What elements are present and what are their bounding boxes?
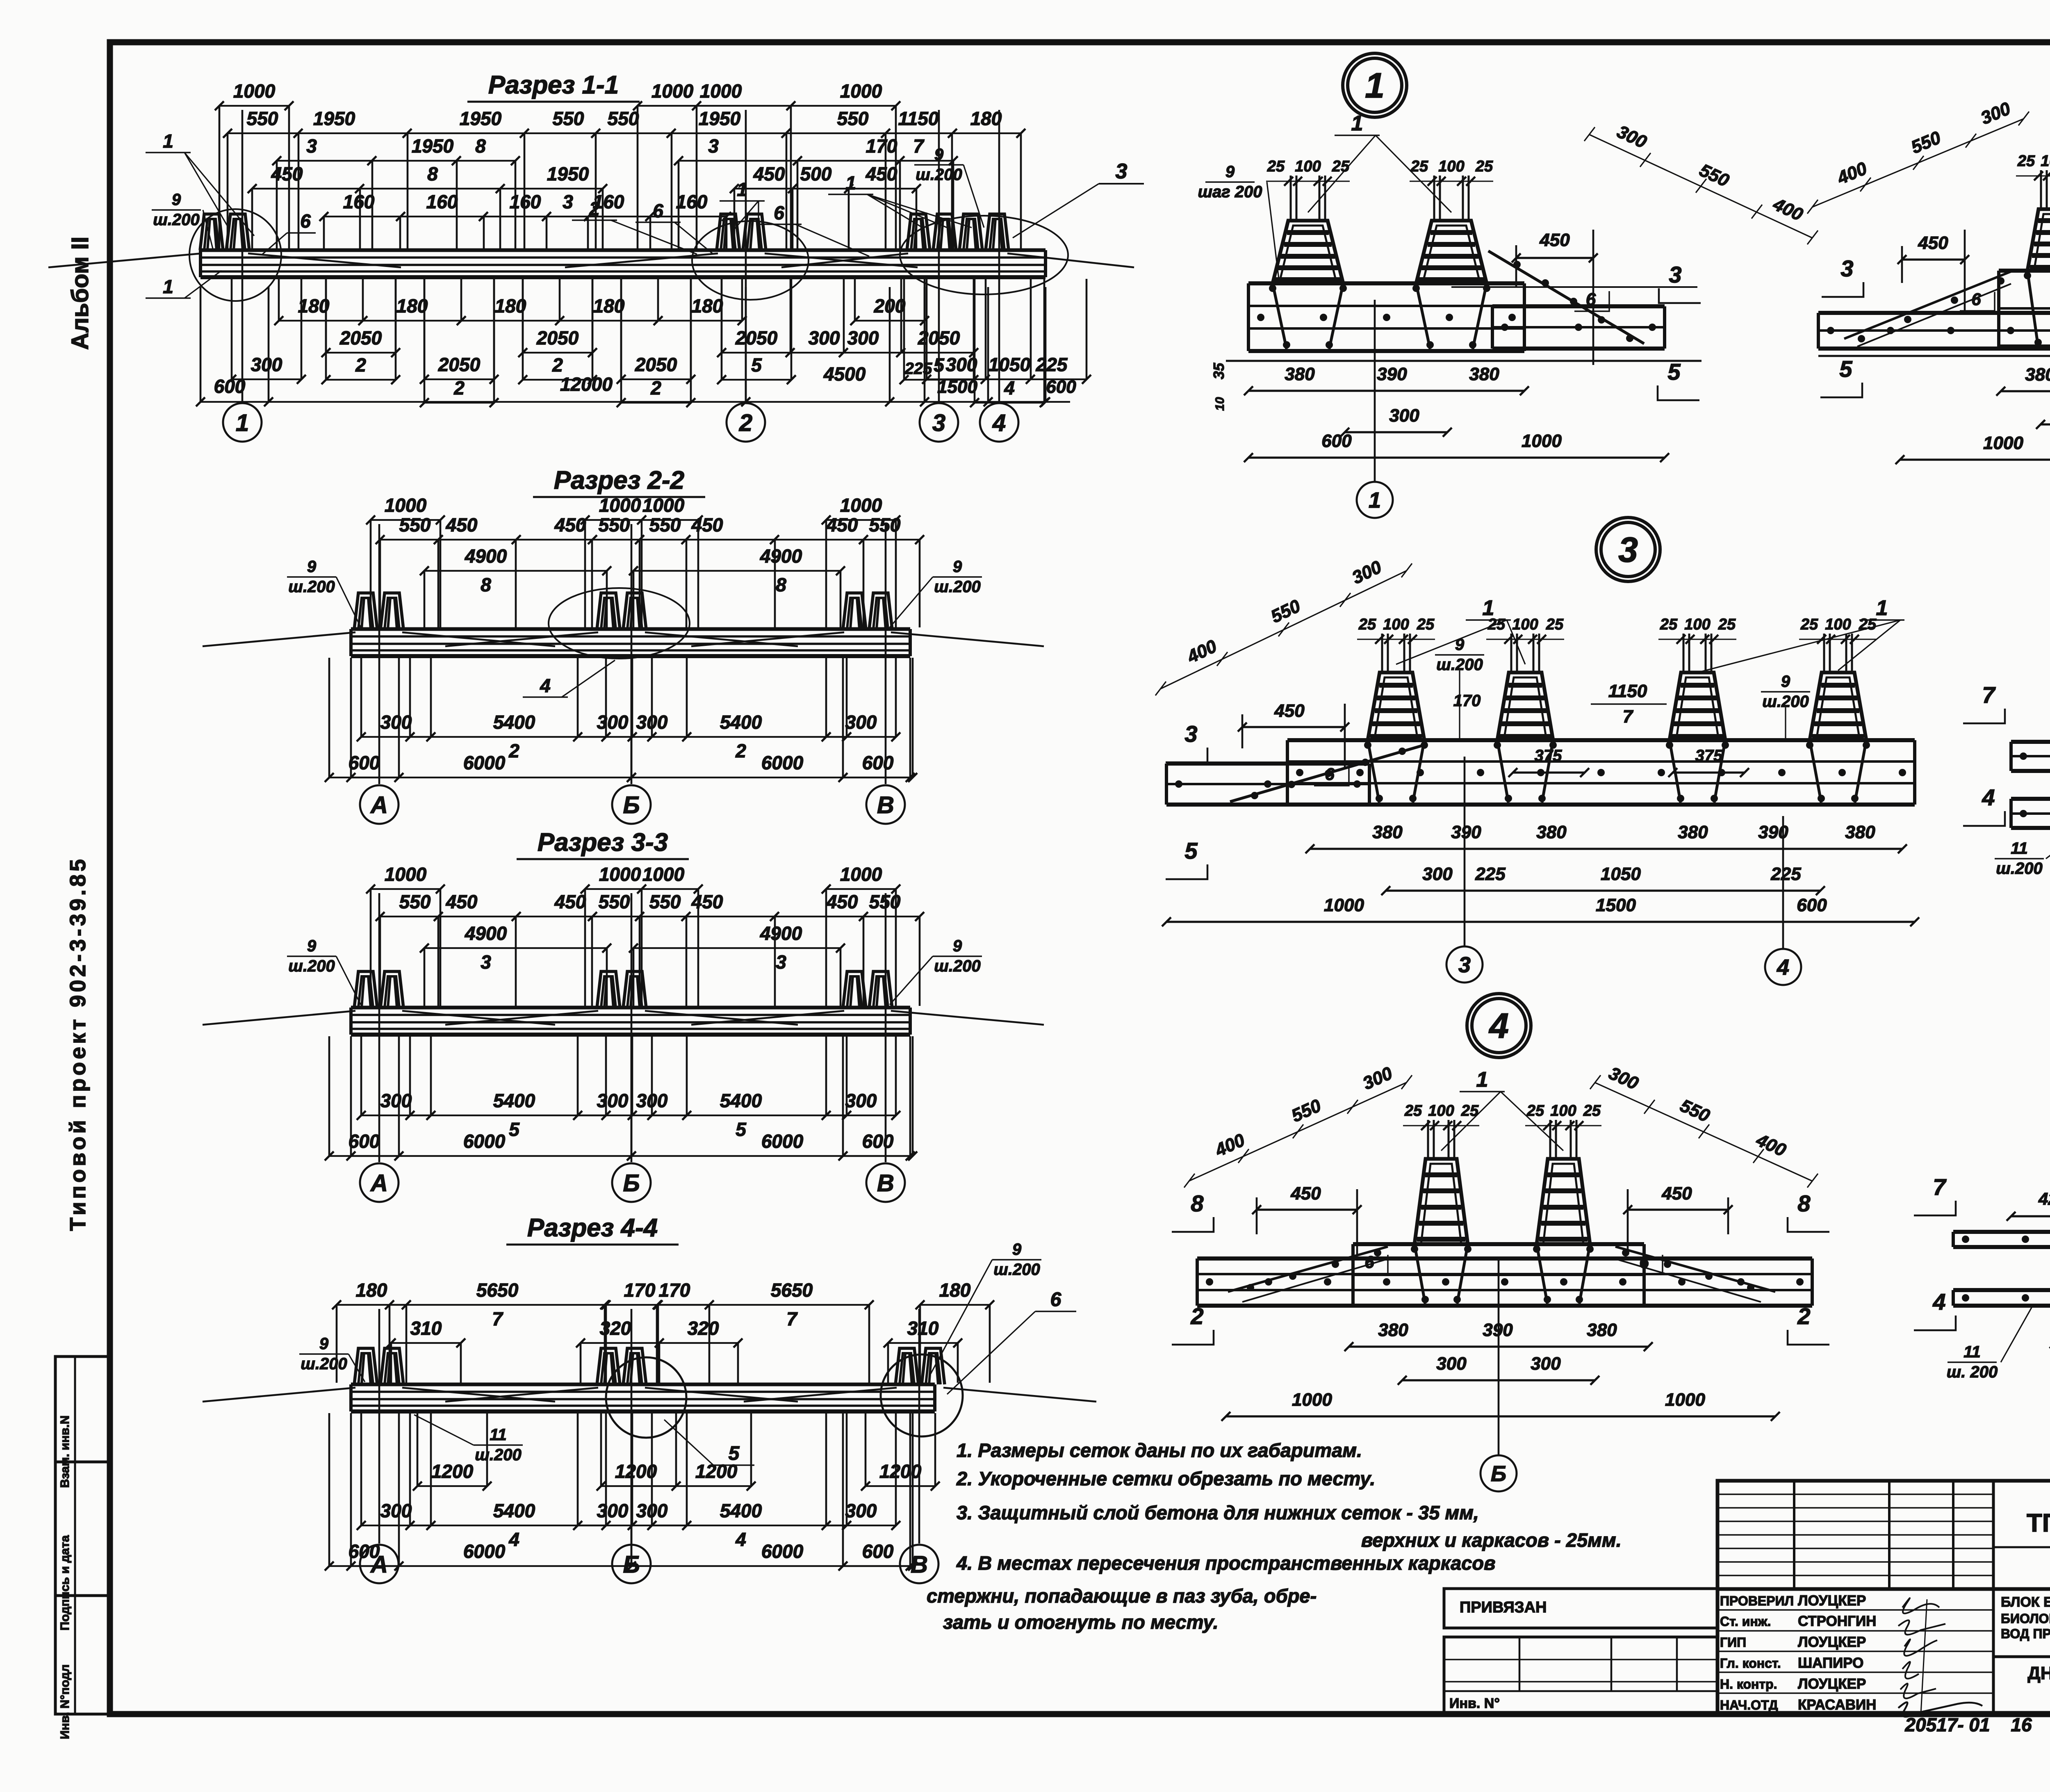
svg-text:380: 380 (1587, 1320, 1617, 1340)
axis circle 4 of node 3 (1765, 949, 1801, 985)
svg-text:170: 170 (1453, 692, 1481, 710)
svg-text:300: 300 (845, 711, 877, 733)
teeth of Разрез 3-3 (354, 971, 377, 1008)
teeth of node 3 (1368, 740, 1379, 803)
svg-text:2050: 2050 (635, 354, 677, 375)
svg-text:160: 160 (343, 191, 375, 212)
svg-text:300: 300 (251, 354, 282, 375)
svg-text:1000: 1000 (1665, 1390, 1705, 1410)
svg-text:225: 225 (1036, 354, 1068, 375)
svg-text:3: 3 (481, 951, 491, 973)
svg-text:600: 600 (1321, 431, 1352, 451)
svg-text:180: 180 (396, 295, 428, 317)
long bottom line node2 (1818, 355, 2050, 357)
svg-text:1950: 1950 (412, 135, 454, 157)
svg-text:600: 600 (862, 1541, 894, 1562)
svg-text:6: 6 (1639, 1252, 1649, 1272)
svg-text:6: 6 (300, 210, 311, 232)
svg-text:450: 450 (446, 514, 478, 536)
svg-text:5400: 5400 (493, 1500, 535, 1521)
svg-text:1200: 1200 (615, 1461, 657, 1482)
svg-text:В: В (911, 1551, 928, 1578)
svg-text:Типовой проект 902-3-39.85: Типовой проект 902-3-39.85 (66, 856, 90, 1231)
svg-text:ш.200: ш.200 (1996, 860, 2042, 878)
svg-text:1: 1 (1876, 596, 1888, 620)
svg-text:25: 25 (1800, 616, 1818, 633)
svg-text:8: 8 (475, 135, 486, 157)
svg-text:9: 9 (172, 191, 181, 209)
svg-text:6000: 6000 (463, 1541, 506, 1562)
teeth of Разрез 2-2 (354, 593, 377, 629)
svg-text:5: 5 (1184, 838, 1198, 864)
svg-text:Инв. N°подл: Инв. N°подл (58, 1664, 72, 1740)
svg-text:170: 170 (624, 1279, 656, 1301)
teeth of node 2 (2027, 271, 2038, 347)
svg-text:600: 600 (348, 752, 380, 773)
svg-text:9: 9 (1012, 1240, 1022, 1259)
svg-text:100: 100 (1825, 616, 1851, 633)
svg-text:ТП 902-3-39.85: ТП 902-3-39.85 (2027, 1509, 2050, 1537)
svg-text:ш.200: ш.200 (475, 1446, 521, 1464)
svg-text:1: 1 (1365, 66, 1385, 105)
svg-text:3: 3 (1840, 255, 1853, 281)
svg-text:7: 7 (1982, 682, 1996, 708)
section markers node2 (1822, 282, 1863, 297)
svg-text:380: 380 (1678, 822, 1708, 842)
svg-text:550: 550 (247, 108, 278, 129)
svg-text:390: 390 (1451, 822, 1481, 842)
svg-text:8: 8 (481, 574, 491, 595)
svg-text:550: 550 (399, 891, 431, 912)
svg-text:25: 25 (1417, 616, 1435, 633)
svg-text:180: 180 (692, 295, 723, 317)
svg-text:225: 225 (1475, 864, 1506, 884)
svg-text:9: 9 (1781, 673, 1790, 691)
bottom axis circle of node 3 (1446, 946, 1483, 983)
svg-text:Гл. конст.: Гл. конст. (1720, 1656, 1781, 1671)
svg-text:ЛОУЦКЕР: ЛОУЦКЕР (1798, 1676, 1866, 1692)
svg-text:550: 550 (553, 108, 584, 129)
svg-text:25: 25 (1583, 1102, 1601, 1119)
svg-text:6: 6 (1971, 290, 1981, 309)
axis circles of Разрез 2-2 (360, 785, 399, 824)
svg-text:1950: 1950 (313, 108, 355, 129)
svg-text:100: 100 (1428, 1102, 1454, 1119)
svg-text:4. В местах пересечения прос: 4. В местах пересечения пространственных… (956, 1552, 1495, 1574)
svg-text:Разрез 3-3: Разрез 3-3 (538, 828, 668, 857)
svg-text:5650: 5650 (771, 1279, 813, 1301)
svg-text:1500: 1500 (1596, 895, 1636, 915)
left margin stamp boxes (55, 1357, 110, 1714)
svg-text:300: 300 (1436, 1354, 1467, 1374)
svg-text:9: 9 (307, 937, 317, 955)
title block (1717, 1481, 2050, 1714)
svg-text:Разрез 1-1: Разрез 1-1 (488, 71, 619, 99)
svg-text:300: 300 (809, 327, 840, 349)
privyazan table (1444, 1589, 1717, 1628)
svg-text:600: 600 (348, 1131, 380, 1152)
svg-text:5: 5 (729, 1443, 740, 1464)
svg-text:25: 25 (1358, 616, 1376, 633)
slopes node4 (1228, 1247, 1388, 1292)
svg-text:1000: 1000 (651, 80, 694, 102)
svg-text:7: 7 (913, 135, 925, 157)
svg-text:1950: 1950 (460, 108, 502, 129)
svg-text:Б: Б (623, 792, 640, 818)
svg-text:5: 5 (1839, 356, 1852, 382)
svg-text:2: 2 (650, 377, 661, 399)
svg-text:1000: 1000 (1522, 431, 1562, 451)
svg-text:300: 300 (847, 327, 879, 349)
svg-text:320: 320 (600, 1318, 631, 1339)
svg-text:шаг 200: шаг 200 (1198, 183, 1262, 201)
teeth of Разрез 4-4 (354, 1348, 377, 1384)
svg-text:425: 425 (2038, 1189, 2050, 1208)
svg-text:550: 550 (649, 891, 681, 912)
svg-text:4: 4 (735, 1529, 746, 1550)
svg-text:300: 300 (380, 711, 412, 733)
axis verticals of Разрез 2-2 (378, 524, 380, 784)
svg-text:Ст. инж.: Ст. инж. (1720, 1614, 1771, 1629)
svg-text:А: А (370, 1170, 388, 1197)
teeth of node 1 (1273, 283, 1287, 349)
svg-text:ЛОУЦКЕР: ЛОУЦКЕР (1798, 1593, 1866, 1609)
section markers node3 (1166, 748, 1207, 762)
svg-text:1: 1 (1476, 1068, 1488, 1092)
svg-text:1: 1 (236, 410, 249, 436)
svg-text:5400: 5400 (720, 1500, 762, 1521)
svg-text:Н. контр.: Н. контр. (1720, 1677, 1777, 1692)
svg-text:1: 1 (1351, 112, 1363, 135)
svg-text:380: 380 (1378, 1320, 1408, 1340)
svg-text:180: 180 (939, 1279, 971, 1301)
svg-text:450: 450 (866, 163, 897, 185)
svg-text:А: А (370, 792, 388, 818)
teeth of Разрез 1-1 (200, 214, 223, 250)
svg-text:380: 380 (1536, 822, 1567, 842)
svg-text:8: 8 (427, 163, 438, 185)
svg-text:4: 4 (1982, 784, 1995, 810)
bottom axis circle of node 4 (1481, 1455, 1517, 1491)
svg-text:300: 300 (845, 1090, 877, 1111)
svg-text:1000: 1000 (599, 864, 641, 885)
svg-text:450: 450 (691, 891, 723, 912)
axis verticals of Разрез 4-4 (378, 1309, 380, 1543)
svg-text:1150: 1150 (1608, 681, 1647, 701)
svg-text:300: 300 (1389, 406, 1419, 426)
bent bar node1 (1488, 251, 1644, 344)
svg-text:1. Размеры сеток даны по их га: 1. Размеры сеток даны по их габаритам. (957, 1439, 1362, 1461)
svg-text:Б: Б (623, 1551, 640, 1578)
svg-text:25: 25 (1718, 616, 1736, 633)
svg-text:2: 2 (508, 740, 519, 761)
svg-text:2: 2 (735, 740, 746, 761)
svg-text:1050: 1050 (1601, 864, 1641, 884)
svg-text:380: 380 (2025, 365, 2050, 385)
svg-text:2: 2 (1797, 1303, 1810, 1329)
slab bands of node 5 (1953, 1230, 2050, 1234)
svg-text:Б: Б (1491, 1461, 1506, 1486)
svg-text:25: 25 (1475, 158, 1493, 175)
svg-text:600: 600 (862, 752, 894, 773)
svg-text:450: 450 (1661, 1183, 1692, 1204)
svg-text:8: 8 (776, 574, 786, 595)
svg-text:7: 7 (492, 1308, 503, 1329)
svg-text:Инв. N°: Инв. N° (1449, 1696, 1500, 1711)
svg-text:2050: 2050 (536, 327, 579, 349)
svg-text:4: 4 (508, 1529, 519, 1550)
slab of Разрез 2-2 (351, 627, 910, 631)
svg-text:4900: 4900 (760, 545, 802, 567)
svg-text:9: 9 (953, 558, 962, 576)
svg-text:5400: 5400 (493, 711, 535, 733)
svg-text:БЛОК ЕМКОСТЕЙ ДЛЯ СТАНЦИИ: БЛОК ЕМКОСТЕЙ ДЛЯ СТАНЦИИ (2001, 1594, 2050, 1610)
svg-text:9: 9 (319, 1335, 329, 1353)
svg-text:1: 1 (1483, 596, 1494, 620)
svg-text:5: 5 (1667, 359, 1681, 385)
svg-text:10: 10 (1213, 397, 1227, 411)
svg-text:ГИП: ГИП (1720, 1635, 1746, 1650)
section markers node4 (1172, 1217, 1214, 1232)
svg-text:9: 9 (1455, 636, 1465, 654)
svg-text:300: 300 (597, 1500, 629, 1521)
svg-text:500: 500 (800, 163, 832, 185)
svg-text:12000: 12000 (560, 374, 613, 395)
svg-text:6000: 6000 (761, 1541, 804, 1562)
svg-text:3: 3 (1184, 721, 1197, 747)
svg-text:3: 3 (1458, 953, 1471, 977)
svg-text:6000: 6000 (463, 752, 506, 773)
svg-text:Альбом II: Альбом II (67, 237, 93, 350)
svg-text:25: 25 (2017, 153, 2035, 170)
svg-text:9: 9 (953, 937, 962, 955)
svg-text:6: 6 (774, 202, 784, 223)
svg-text:9: 9 (934, 146, 944, 164)
svg-text:380: 380 (1372, 822, 1403, 842)
svg-text:1150: 1150 (898, 108, 939, 129)
svg-text:6: 6 (1364, 1252, 1374, 1272)
svg-text:600: 600 (1046, 377, 1076, 397)
svg-text:4: 4 (1004, 377, 1015, 399)
svg-text:35: 35 (1210, 363, 1227, 379)
svg-text:100: 100 (1438, 158, 1464, 175)
vertical dividers main (1992, 1481, 1995, 1714)
svg-text:6: 6 (653, 200, 663, 221)
svg-text:550: 550 (599, 891, 630, 912)
svg-text:450: 450 (1274, 701, 1305, 721)
svg-text:160: 160 (510, 191, 541, 212)
svg-text:100: 100 (1295, 158, 1321, 175)
svg-text:9: 9 (307, 558, 317, 576)
svg-text:25: 25 (1404, 1102, 1422, 1119)
axis verticals of Разрез 1-1 (241, 110, 244, 402)
svg-text:1200: 1200 (879, 1461, 922, 1482)
svg-text:100: 100 (1684, 616, 1710, 633)
detail node circle 4 (1467, 994, 1531, 1058)
svg-text:1: 1 (737, 179, 747, 200)
svg-text:1000: 1000 (840, 495, 882, 516)
svg-text:160: 160 (426, 191, 458, 212)
slab of Разрез 1-1 (200, 249, 1045, 252)
slab bands of node 6 (2011, 740, 2050, 744)
svg-text:25: 25 (1332, 158, 1350, 175)
svg-text:450: 450 (826, 514, 858, 536)
svg-text:ДНИЩЕ. АРМИРОВАНИЕ: ДНИЩЕ. АРМИРОВАНИЕ (2027, 1663, 2050, 1683)
svg-text:375: 375 (1535, 747, 1562, 765)
slab bands of node 4 (1197, 1256, 1812, 1261)
svg-text:450: 450 (1290, 1183, 1321, 1204)
svg-text:2. Укороченные сетки обрезать: 2. Укороченные сетки обрезать по месту. (956, 1468, 1376, 1489)
svg-text:В: В (877, 792, 894, 818)
svg-text:25: 25 (1526, 1102, 1544, 1119)
svg-text:4: 4 (992, 410, 1006, 436)
svg-text:11: 11 (2011, 839, 2028, 857)
svg-text:7: 7 (1623, 707, 1634, 727)
svg-text:2: 2 (589, 198, 600, 219)
svg-text:4: 4 (540, 675, 551, 696)
slab of Разрез 3-3 (351, 1006, 910, 1010)
svg-text:6: 6 (1050, 1289, 1061, 1311)
svg-text:550: 550 (599, 514, 630, 536)
svg-text:1000: 1000 (700, 80, 742, 102)
svg-text:5: 5 (751, 354, 762, 376)
svg-text:25: 25 (1461, 1102, 1479, 1119)
svg-text:375: 375 (1695, 747, 1723, 765)
detail ellipses of Разрез 1-1 (189, 209, 281, 301)
svg-text:450: 450 (446, 891, 478, 912)
svg-text:6000: 6000 (761, 1131, 804, 1152)
svg-text:3: 3 (1116, 160, 1127, 183)
svg-text:100: 100 (2041, 153, 2050, 170)
svg-text:4900: 4900 (465, 923, 507, 944)
svg-text:1000: 1000 (1983, 433, 2023, 453)
svg-text:100: 100 (1383, 616, 1409, 633)
svg-text:2050: 2050 (438, 354, 481, 375)
svg-text:5400: 5400 (720, 711, 762, 733)
svg-text:1000: 1000 (385, 495, 427, 516)
teeth of node 4 (1414, 1244, 1425, 1304)
svg-text:11: 11 (1963, 1343, 1981, 1361)
svg-text:4900: 4900 (465, 545, 507, 567)
slab bands of node 1 (1248, 281, 1524, 285)
svg-text:390: 390 (1377, 364, 1407, 384)
svg-text:180: 180 (970, 108, 1002, 129)
svg-text:Взам. инв.N: Взам. инв.N (58, 1416, 72, 1488)
svg-text:5: 5 (736, 1119, 747, 1140)
svg-text:3: 3 (1618, 530, 1638, 570)
svg-text:16: 16 (2011, 1714, 2032, 1735)
svg-text:1000: 1000 (1324, 895, 1364, 915)
svg-text:ВОД ПРОИЗВОДИТЕЛЬНОСТЬЮ: ВОД ПРОИЗВОДИТЕЛЬНОСТЬЮ (2001, 1626, 2050, 1641)
axis circles of Разрез 4-4 (360, 1545, 399, 1583)
svg-text:Разрез 4-4: Разрез 4-4 (527, 1214, 658, 1242)
svg-text:5400: 5400 (720, 1090, 762, 1111)
svg-text:2: 2 (453, 377, 465, 399)
svg-text:310: 310 (410, 1318, 442, 1339)
svg-text:450: 450 (554, 891, 586, 912)
svg-text:1: 1 (163, 276, 173, 297)
svg-text:ш.200: ш.200 (916, 166, 962, 184)
svg-text:300: 300 (1531, 1354, 1561, 1374)
svg-text:600: 600 (862, 1131, 894, 1152)
svg-text:ш.200: ш.200 (934, 957, 980, 975)
axis circles of Разрез 1-1 (223, 403, 262, 442)
signature squiggles (1902, 1598, 1939, 1613)
svg-text:СТРОНГИН: СТРОНГИН (1798, 1613, 1876, 1629)
svg-text:450: 450 (554, 514, 586, 536)
svg-text:11: 11 (490, 1426, 507, 1444)
svg-text:600: 600 (1797, 895, 1827, 915)
svg-text:1000: 1000 (1292, 1390, 1332, 1410)
svg-text:1200: 1200 (431, 1461, 474, 1482)
svg-text:1500: 1500 (937, 377, 977, 397)
svg-text:180: 180 (495, 295, 526, 317)
svg-text:380: 380 (1469, 364, 1499, 384)
svg-text:3: 3 (563, 191, 573, 212)
svg-text:450: 450 (1539, 230, 1570, 250)
svg-text:300: 300 (597, 1090, 629, 1111)
svg-text:ш.200: ш.200 (934, 578, 980, 596)
svg-text:1000: 1000 (599, 495, 641, 516)
svg-text:А: А (370, 1551, 388, 1578)
svg-text:225: 225 (1770, 864, 1801, 884)
svg-text:300: 300 (380, 1090, 412, 1111)
slopes node2 (1844, 271, 2011, 339)
svg-text:550: 550 (399, 514, 431, 536)
svg-text:БИОЛОГИЧЕСКОЙ ОЧИСТКИ СТОЧНЫ: БИОЛОГИЧЕСКОЙ ОЧИСТКИ СТОЧНЫХ (2001, 1611, 2050, 1626)
detail ellipses of Разрез 2-2 (549, 588, 690, 659)
svg-text:Б: Б (623, 1170, 640, 1197)
svg-text:6: 6 (1586, 290, 1596, 310)
svg-text:ПРОВЕРИЛ: ПРОВЕРИЛ (1720, 1594, 1794, 1608)
svg-text:450: 450 (1918, 233, 1948, 253)
svg-text:550: 550 (649, 514, 681, 536)
svg-text:380: 380 (1285, 364, 1315, 384)
svg-text:310: 310 (907, 1318, 939, 1339)
svg-text:8: 8 (1797, 1190, 1811, 1216)
svg-text:3: 3 (1669, 262, 1681, 287)
detail node circle 1 (1343, 53, 1407, 117)
svg-text:600: 600 (214, 376, 246, 397)
svg-text:1950: 1950 (699, 108, 741, 129)
svg-text:ш.200: ш.200 (288, 957, 335, 975)
bottom axis circle of node 1 (1357, 482, 1393, 518)
svg-text:В: В (877, 1170, 894, 1197)
svg-text:4: 4 (1932, 1289, 1945, 1315)
svg-text:180: 180 (298, 295, 330, 317)
svg-text:2050: 2050 (339, 327, 382, 349)
svg-text:ш.200: ш.200 (301, 1355, 347, 1373)
svg-text:20517- 01: 20517- 01 (1904, 1714, 1990, 1735)
svg-text:2: 2 (552, 354, 563, 376)
svg-text:5: 5 (509, 1119, 520, 1140)
svg-text:300: 300 (597, 711, 629, 733)
detail node circle 3 (1596, 518, 1660, 581)
svg-text:1050: 1050 (989, 354, 1031, 375)
svg-text:1: 1 (163, 130, 173, 152)
svg-text:550: 550 (608, 108, 639, 129)
svg-text:ШАПИРО: ШАПИРО (1798, 1655, 1863, 1671)
svg-text:25: 25 (1267, 158, 1285, 175)
svg-text:6000: 6000 (463, 1131, 506, 1152)
svg-text:550: 550 (837, 108, 869, 129)
svg-text:7: 7 (1933, 1174, 1947, 1200)
svg-text:1000: 1000 (233, 80, 276, 102)
svg-text:ш.200: ш.200 (993, 1261, 1040, 1279)
svg-text:3. Защитный слой бетона для ни: 3. Защитный слой бетона для нижних сеток… (957, 1502, 1479, 1523)
svg-text:1: 1 (845, 172, 856, 194)
main divider (1717, 1587, 2050, 1591)
